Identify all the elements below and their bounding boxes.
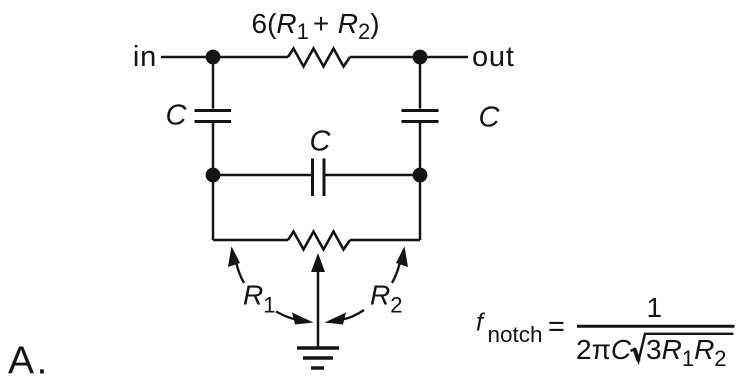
wire: resistor to node B and out <box>350 56 468 59</box>
ground <box>297 346 339 349</box>
svg-text:C: C <box>479 102 501 134</box>
node C junction dot <box>206 168 221 183</box>
arrow from R2 up to resistor right <box>392 264 400 283</box>
capacitor C left <box>195 109 232 112</box>
capacitor C right <box>402 109 439 112</box>
wire: potentiometer to bottom right <box>350 239 420 242</box>
svg-text:3R1R2: 3R1R2 <box>646 334 727 371</box>
wire: middle capacitor to node D <box>326 174 421 177</box>
wire: left capacitor down to node C <box>212 123 215 175</box>
node D junction dot <box>413 168 428 183</box>
node A junction dot <box>206 50 221 65</box>
wire: right capacitor down to node D <box>419 123 422 175</box>
arrow from R2 to wiper wire <box>342 310 364 320</box>
wire: node D down right side <box>419 175 422 240</box>
radical sign <box>631 334 734 361</box>
svg-text:C: C <box>310 126 332 158</box>
capacitor C middle <box>311 159 314 197</box>
wire: node B down to right capacitor <box>419 57 422 109</box>
svg-text:out: out <box>472 41 515 73</box>
wire: node C down left side <box>212 175 215 240</box>
resistor 6(R1+R2) <box>288 49 350 67</box>
svg-text:in: in <box>133 41 157 73</box>
svg-text:R1: R1 <box>243 280 275 318</box>
arrow from R1 up to resistor left <box>237 264 245 283</box>
arrow from R1 to wiper wire <box>276 312 296 320</box>
svg-text:1: 1 <box>647 292 663 323</box>
svg-text:2πC: 2πC <box>576 334 632 365</box>
wire: node A down to left capacitor <box>212 57 215 109</box>
svg-text:notch: notch <box>488 322 543 347</box>
svg-text:=: = <box>548 311 565 343</box>
svg-text:C: C <box>166 100 188 132</box>
wire: node C to middle capacitor <box>213 174 311 177</box>
fraction bar <box>577 325 735 328</box>
svg-text:6(R1+R2): 6(R1+R2) <box>252 8 380 44</box>
svg-text:f: f <box>476 309 486 337</box>
wire: bottom left to potentiometer <box>213 239 288 242</box>
potentiometer wiper arrow <box>311 253 325 272</box>
potentiometer resistor R1+R2 <box>288 232 350 250</box>
svg-text:R2: R2 <box>370 280 402 318</box>
node B junction dot <box>413 50 428 65</box>
wire: in to node A <box>161 56 288 59</box>
wire: wiper to ground <box>317 271 320 348</box>
svg-text:A.: A. <box>8 340 47 382</box>
